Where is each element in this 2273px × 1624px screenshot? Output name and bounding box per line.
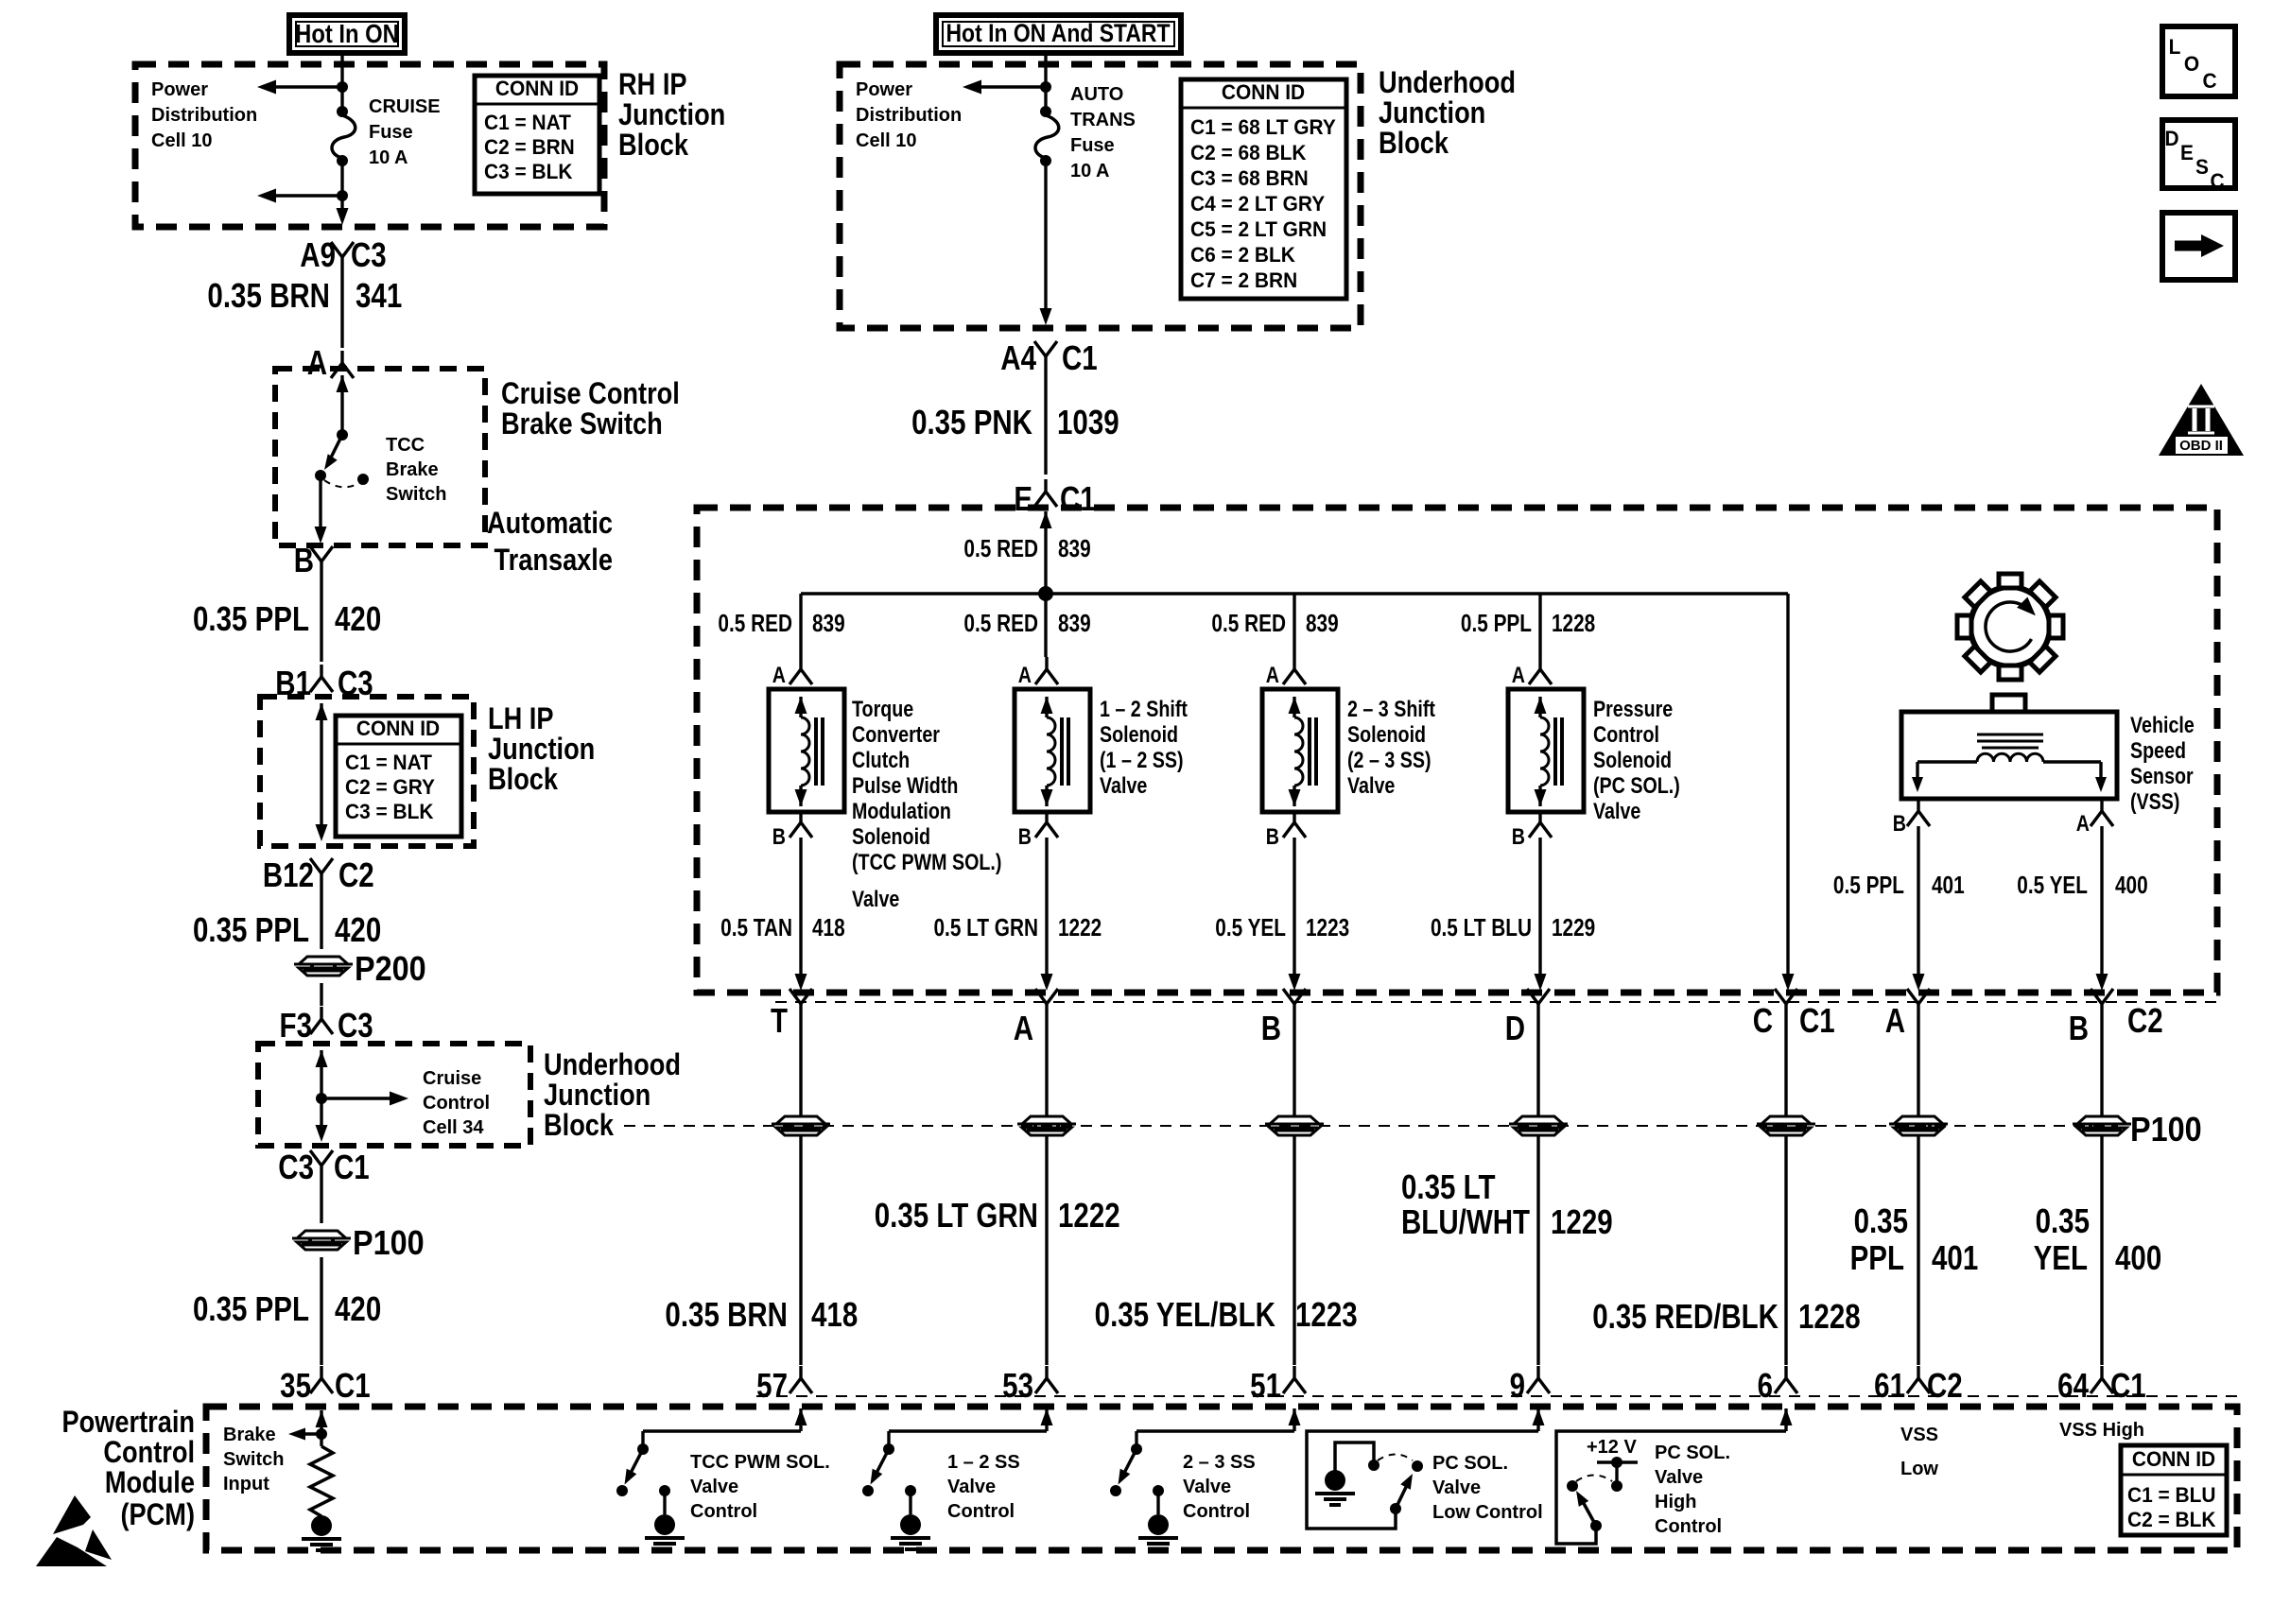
- svg-text:Valve: Valve: [1183, 1477, 1231, 1497]
- svg-text:6: 6: [1758, 1366, 1773, 1404]
- svg-text:0.35 BRN: 0.35 BRN: [207, 276, 330, 314]
- svg-text:0.35: 0.35: [2036, 1201, 2090, 1239]
- svg-text:Control: Control: [423, 1093, 490, 1114]
- svg-text:0.35 PPL: 0.35 PPL: [193, 1289, 309, 1327]
- svg-text:C3: C3: [278, 1148, 314, 1185]
- svg-text:418: 418: [811, 1295, 858, 1333]
- svg-text:TCC: TCC: [386, 435, 425, 456]
- svg-text:C6 = 2 BLK: C6 = 2 BLK: [1190, 244, 1295, 268]
- svg-text:Valve: Valve: [1593, 798, 1640, 823]
- svg-text:Junction: Junction: [488, 733, 595, 767]
- svg-text:Valve: Valve: [690, 1477, 738, 1497]
- svg-text:1229: 1229: [1552, 914, 1595, 942]
- svg-text:401: 401: [1932, 872, 1965, 899]
- svg-text:C1: C1: [334, 1148, 370, 1185]
- svg-text:Fuse: Fuse: [369, 122, 413, 143]
- svg-text:C2: C2: [2127, 1001, 2163, 1039]
- svg-text:Modulation: Modulation: [852, 798, 951, 823]
- svg-text:0.35 LT: 0.35 LT: [1401, 1167, 1495, 1205]
- svg-text:A: A: [2076, 810, 2090, 836]
- svg-text:B: B: [1261, 1009, 1281, 1046]
- svg-text:0.35: 0.35: [1854, 1201, 1908, 1239]
- svg-text:C1 = NAT: C1 = NAT: [484, 112, 571, 135]
- svg-text:+12 V: +12 V: [1587, 1437, 1637, 1458]
- svg-text:1228: 1228: [1552, 610, 1595, 637]
- svg-text:Automatic: Automatic: [487, 507, 613, 541]
- svg-text:A: A: [1266, 662, 1279, 687]
- svg-text:High: High: [1655, 1492, 1696, 1512]
- svg-text:Underhood: Underhood: [544, 1048, 681, 1082]
- svg-text:YEL: YEL: [2034, 1238, 2088, 1276]
- svg-text:C4 = 2 LT GRY: C4 = 2 LT GRY: [1190, 193, 1325, 216]
- svg-text:A9: A9: [300, 235, 336, 273]
- svg-text:CONN ID: CONN ID: [356, 717, 440, 741]
- svg-text:Valve: Valve: [1432, 1477, 1481, 1498]
- svg-text:B: B: [772, 823, 786, 849]
- svg-text:Low Control: Low Control: [1432, 1502, 1543, 1523]
- svg-text:CONN ID: CONN ID: [2132, 1448, 2215, 1472]
- svg-text:Cruise Control: Cruise Control: [501, 377, 680, 411]
- svg-text:Distribution: Distribution: [856, 105, 962, 126]
- svg-text:C3 = BLK: C3 = BLK: [345, 801, 434, 824]
- svg-text:0.35 YEL/BLK: 0.35 YEL/BLK: [1095, 1295, 1276, 1333]
- svg-text:0.5 PPL: 0.5 PPL: [1461, 610, 1532, 637]
- svg-text:400: 400: [2115, 1238, 2161, 1276]
- svg-text:Module: Module: [105, 1466, 195, 1500]
- svg-text:A: A: [772, 662, 786, 687]
- svg-text:A: A: [1014, 1009, 1033, 1046]
- svg-text:A: A: [1885, 1001, 1905, 1039]
- svg-text:LH IP: LH IP: [488, 702, 553, 736]
- svg-text:Switch: Switch: [223, 1449, 284, 1470]
- svg-text:Cell 10: Cell 10: [151, 130, 212, 151]
- svg-text:Input: Input: [223, 1474, 269, 1494]
- svg-text:C3 = BLK: C3 = BLK: [484, 161, 573, 184]
- svg-text:Control: Control: [690, 1501, 757, 1522]
- svg-text:CONN ID: CONN ID: [1222, 81, 1305, 105]
- svg-text:0.5 LT BLU: 0.5 LT BLU: [1431, 914, 1532, 942]
- svg-text:C1 = BLU: C1 = BLU: [2127, 1484, 2215, 1508]
- svg-text:Junction: Junction: [618, 98, 725, 132]
- svg-text:E: E: [2180, 142, 2194, 165]
- svg-text:Block: Block: [488, 763, 558, 797]
- svg-text:Block: Block: [544, 1109, 614, 1143]
- svg-text:2 – 3 Shift: 2 – 3 Shift: [1347, 696, 1436, 721]
- svg-text:0.35 LT GRN: 0.35 LT GRN: [875, 1196, 1038, 1234]
- svg-text:F3: F3: [280, 1006, 312, 1044]
- svg-text:53: 53: [1002, 1366, 1033, 1404]
- svg-text:Solenoid: Solenoid: [1593, 747, 1672, 772]
- svg-text:Brake: Brake: [223, 1425, 276, 1445]
- svg-text:61: 61: [1874, 1366, 1905, 1404]
- svg-text:0.5 YEL: 0.5 YEL: [2017, 872, 2088, 899]
- svg-text:Underhood: Underhood: [1379, 66, 1516, 100]
- svg-text:(1 – 2 SS): (1 – 2 SS): [1100, 747, 1184, 772]
- svg-text:C2 = 68 BLK: C2 = 68 BLK: [1190, 142, 1307, 165]
- svg-text:Clutch: Clutch: [852, 747, 910, 772]
- svg-text:Hot In ON And START: Hot In ON And START: [946, 19, 1171, 47]
- svg-text:C1: C1: [335, 1366, 371, 1404]
- svg-text:Junction: Junction: [1379, 96, 1485, 130]
- svg-text:C1 = 68 LT GRY: C1 = 68 LT GRY: [1190, 116, 1336, 140]
- svg-text:0.5 RED: 0.5 RED: [1211, 610, 1286, 637]
- svg-text:Valve: Valve: [852, 886, 899, 911]
- svg-text:Control: Control: [1655, 1516, 1722, 1537]
- svg-text:839: 839: [812, 610, 845, 637]
- svg-text:C1: C1: [1060, 479, 1096, 517]
- svg-text:Cruise: Cruise: [423, 1068, 481, 1089]
- svg-text:PPL: PPL: [1850, 1238, 1904, 1276]
- svg-text:1 – 2 Shift: 1 – 2 Shift: [1100, 696, 1189, 721]
- svg-text:RH IP: RH IP: [618, 68, 687, 102]
- svg-text:10 A: 10 A: [1070, 161, 1110, 181]
- svg-text:B12: B12: [263, 855, 314, 893]
- svg-text:0.35 RED/BLK: 0.35 RED/BLK: [1592, 1297, 1778, 1335]
- svg-text:Control: Control: [947, 1501, 1015, 1522]
- svg-text:Sensor: Sensor: [2130, 763, 2194, 788]
- svg-text:C1: C1: [2110, 1366, 2146, 1404]
- svg-text:Control: Control: [103, 1436, 195, 1470]
- svg-text:420: 420: [335, 599, 381, 637]
- svg-text:Hot In ON: Hot In ON: [295, 18, 399, 48]
- svg-text:Distribution: Distribution: [151, 105, 257, 126]
- svg-text:B: B: [1512, 823, 1525, 849]
- svg-text:TRANS: TRANS: [1070, 110, 1136, 130]
- svg-text:Control: Control: [1593, 721, 1659, 747]
- svg-text:C5 = 2 LT GRN: C5 = 2 LT GRN: [1190, 218, 1327, 242]
- svg-text:0.35 PNK: 0.35 PNK: [911, 403, 1032, 441]
- svg-text:0.5 RED: 0.5 RED: [963, 535, 1038, 562]
- svg-text:839: 839: [1058, 610, 1091, 637]
- svg-text:C: C: [2202, 70, 2216, 94]
- svg-text:51: 51: [1250, 1366, 1281, 1404]
- svg-text:VSS High: VSS High: [2059, 1420, 2144, 1441]
- svg-text:Control: Control: [1183, 1501, 1250, 1522]
- svg-text:Solenoid: Solenoid: [1100, 721, 1178, 747]
- svg-text:Valve: Valve: [947, 1477, 996, 1497]
- svg-text:B: B: [1266, 823, 1279, 849]
- svg-text:Pressure: Pressure: [1593, 696, 1673, 721]
- svg-text:AUTO: AUTO: [1070, 84, 1123, 105]
- svg-text:1 – 2 SS: 1 – 2 SS: [947, 1452, 1020, 1473]
- svg-text:TCC PWM SOL.: TCC PWM SOL.: [690, 1452, 830, 1473]
- svg-text:400: 400: [2115, 872, 2148, 899]
- svg-text:Block: Block: [1379, 127, 1449, 161]
- svg-text:C1 = NAT: C1 = NAT: [345, 752, 432, 775]
- svg-text:C: C: [2210, 170, 2224, 194]
- svg-text:35: 35: [280, 1366, 311, 1404]
- svg-text:2 – 3 SS: 2 – 3 SS: [1183, 1452, 1256, 1473]
- svg-text:C2 = GRY: C2 = GRY: [345, 776, 435, 800]
- svg-text:1222: 1222: [1058, 914, 1102, 942]
- svg-text:D: D: [1505, 1009, 1525, 1046]
- svg-text:(PC SOL.): (PC SOL.): [1593, 772, 1680, 798]
- svg-text:Block: Block: [618, 129, 688, 163]
- svg-text:(TCC PWM SOL.): (TCC PWM SOL.): [852, 849, 1001, 874]
- svg-text:0.5 LT GRN: 0.5 LT GRN: [933, 914, 1038, 942]
- svg-text:C2 = BLK: C2 = BLK: [2127, 1509, 2216, 1532]
- svg-text:CONN ID: CONN ID: [495, 78, 579, 101]
- svg-text:C3 = 68 BRN: C3 = 68 BRN: [1190, 167, 1309, 191]
- svg-text:Brake Switch: Brake Switch: [501, 407, 663, 441]
- svg-text:420: 420: [335, 1289, 381, 1327]
- svg-text:0.5 RED: 0.5 RED: [963, 610, 1038, 637]
- svg-text:0.5 TAN: 0.5 TAN: [720, 914, 792, 942]
- svg-text:B: B: [1018, 823, 1032, 849]
- svg-text:(VSS): (VSS): [2130, 788, 2179, 814]
- svg-text:Speed: Speed: [2130, 737, 2186, 763]
- svg-text:CRUISE: CRUISE: [369, 96, 441, 117]
- svg-text:Solenoid: Solenoid: [1347, 721, 1426, 747]
- svg-text:OBD II: OBD II: [2179, 438, 2223, 454]
- svg-text:401: 401: [1932, 1238, 1978, 1276]
- svg-text:0.5 PPL: 0.5 PPL: [1833, 872, 1904, 899]
- svg-text:L: L: [2169, 36, 2181, 60]
- svg-text:1228: 1228: [1798, 1297, 1861, 1335]
- svg-text:0.5 RED: 0.5 RED: [718, 610, 792, 637]
- svg-text:(2 – 3 SS): (2 – 3 SS): [1347, 747, 1431, 772]
- svg-text:Powertrain: Powertrain: [61, 1406, 195, 1440]
- svg-text:0.35 PPL: 0.35 PPL: [193, 910, 309, 948]
- svg-text:Converter: Converter: [852, 721, 940, 747]
- svg-text:Vehicle: Vehicle: [2130, 712, 2195, 737]
- svg-text:PC SOL.: PC SOL.: [1432, 1453, 1508, 1474]
- svg-text:A4: A4: [1000, 338, 1036, 376]
- svg-text:Torque: Torque: [852, 696, 913, 721]
- svg-text:0.35 PPL: 0.35 PPL: [193, 599, 309, 637]
- svg-text:418: 418: [812, 914, 845, 942]
- svg-text:420: 420: [335, 910, 381, 948]
- svg-text:P100: P100: [2130, 1111, 2202, 1149]
- svg-text:E: E: [1014, 479, 1032, 517]
- svg-text:A: A: [1512, 662, 1525, 687]
- svg-text:C: C: [1753, 1001, 1773, 1039]
- svg-text:57: 57: [756, 1366, 788, 1404]
- svg-text:0.35 BRN: 0.35 BRN: [665, 1295, 788, 1333]
- svg-text:9: 9: [1510, 1366, 1525, 1404]
- svg-text:Junction: Junction: [544, 1079, 651, 1113]
- svg-text:PC SOL.: PC SOL.: [1655, 1443, 1730, 1463]
- svg-text:Valve: Valve: [1655, 1467, 1703, 1488]
- svg-text:Brake: Brake: [386, 459, 439, 480]
- svg-text:C1: C1: [1062, 338, 1098, 376]
- svg-text:0.5 YEL: 0.5 YEL: [1215, 914, 1286, 942]
- svg-text:A: A: [1018, 662, 1032, 687]
- svg-text:1223: 1223: [1295, 1295, 1358, 1333]
- svg-text:C1: C1: [1799, 1001, 1835, 1039]
- svg-text:T: T: [771, 1001, 788, 1039]
- svg-text:P100: P100: [353, 1224, 425, 1262]
- svg-text:1039: 1039: [1057, 403, 1119, 441]
- svg-text:C3: C3: [351, 235, 387, 273]
- svg-text:64: 64: [2057, 1366, 2089, 1404]
- svg-text:C2 = BRN: C2 = BRN: [484, 136, 575, 160]
- svg-text:Valve: Valve: [1347, 772, 1395, 798]
- svg-text:C2: C2: [338, 855, 374, 893]
- svg-text:1229: 1229: [1551, 1202, 1613, 1240]
- svg-text:Fuse: Fuse: [1070, 135, 1115, 156]
- svg-text:Solenoid: Solenoid: [852, 823, 930, 849]
- svg-text:Low: Low: [1900, 1459, 1938, 1479]
- svg-text:A: A: [307, 343, 327, 381]
- svg-text:1223: 1223: [1306, 914, 1349, 942]
- svg-text:S: S: [2195, 156, 2209, 180]
- svg-text:839: 839: [1306, 610, 1339, 637]
- svg-text:C3: C3: [338, 1006, 373, 1044]
- svg-text:C7 = 2 BRN: C7 = 2 BRN: [1190, 269, 1297, 293]
- svg-text:D: D: [2164, 128, 2178, 151]
- svg-text:Cell 10: Cell 10: [856, 130, 916, 151]
- svg-text:C2: C2: [1927, 1366, 1963, 1404]
- svg-text:VSS: VSS: [1900, 1425, 1938, 1445]
- svg-text:Power: Power: [151, 79, 208, 100]
- svg-text:Power: Power: [856, 79, 912, 100]
- svg-text:1222: 1222: [1058, 1196, 1120, 1234]
- svg-text:P200: P200: [355, 950, 426, 988]
- svg-text:Switch: Switch: [386, 484, 446, 505]
- svg-text:839: 839: [1058, 535, 1091, 562]
- svg-text:B: B: [1893, 810, 1906, 836]
- svg-text:BLU/WHT: BLU/WHT: [1401, 1202, 1530, 1240]
- svg-text:B: B: [2069, 1009, 2089, 1046]
- svg-text:Transaxle: Transaxle: [495, 544, 613, 578]
- svg-text:10 A: 10 A: [369, 147, 408, 168]
- svg-text:O: O: [2184, 53, 2199, 77]
- svg-text:Cell 34: Cell 34: [423, 1117, 484, 1138]
- svg-text:341: 341: [356, 276, 402, 314]
- svg-text:Pulse Width: Pulse Width: [852, 772, 958, 798]
- svg-text:Valve: Valve: [1100, 772, 1147, 798]
- svg-text:(PCM): (PCM): [120, 1498, 195, 1532]
